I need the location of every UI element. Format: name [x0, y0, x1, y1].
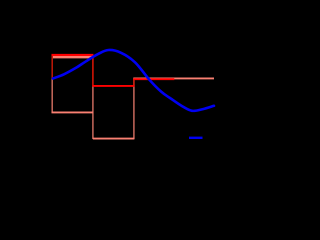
salmon vertical x=52 (lower part) [51, 78, 53, 113]
red vertical x=134 (short) [133, 79, 135, 86]
salmon step y=112 [52, 111, 93, 113]
blue sine-like curve [53, 50, 214, 111]
red vertical x=52 (upper part) [51, 55, 53, 78]
salmon step y=138.6 [93, 138, 134, 140]
blue legend dash [189, 137, 203, 139]
red step y=79.2 [133, 78, 174, 80]
red vertical x=93 (upper part) [92, 55, 94, 87]
red step y=85.7 [92, 85, 134, 87]
salmon vertical x=93 (lower part) [92, 86, 94, 139]
salmon vertical x=134 [133, 78, 135, 138]
red step y=54.8 [52, 54, 94, 56]
salmon step y=57 [52, 56, 94, 58]
salmon step y=78.4 [133, 77, 214, 79]
